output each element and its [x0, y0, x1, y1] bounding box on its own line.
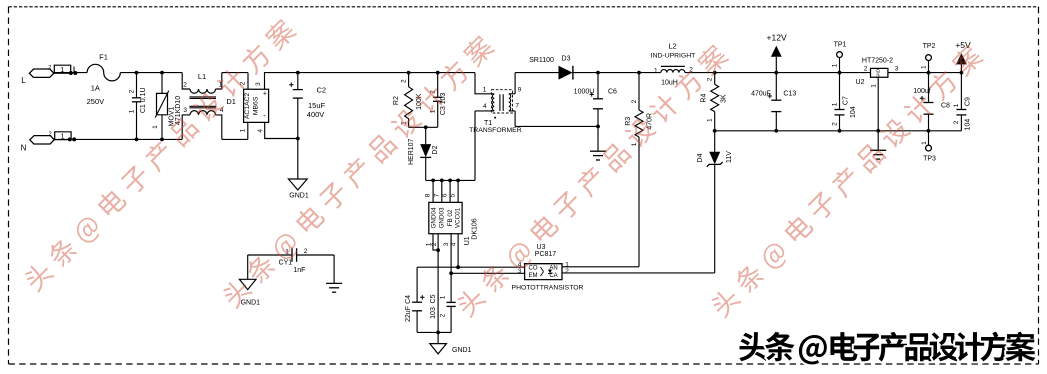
diode D2 (HER107)	[425, 127, 427, 144]
svg-text:U1: U1	[464, 236, 471, 245]
resistor R4 (3K)	[714, 73, 716, 85]
svg-text:PC817: PC817	[535, 251, 557, 258]
wire L to fuse	[54, 72, 87, 75]
svg-text:AC1AC2: AC1AC2	[244, 92, 251, 119]
watermark 4	[708, 42, 987, 321]
svg-text:C2: C2	[317, 85, 327, 94]
svg-text:2: 2	[706, 77, 713, 81]
capacitor C2 (15uF 400V)	[297, 73, 299, 179]
svg-text:2: 2	[49, 131, 52, 137]
wire U1 VCC rail	[417, 266, 524, 268]
test point TP3	[928, 131, 930, 145]
svg-text:TP3: TP3	[923, 156, 936, 163]
svg-text:2: 2	[831, 122, 838, 126]
svg-text:SR1100: SR1100	[529, 57, 554, 64]
svg-text:VCC01: VCC01	[455, 207, 462, 228]
capacitor C8 (100uf)	[928, 73, 930, 131]
ground (U2, earth)	[870, 149, 886, 151]
svg-text:1: 1	[871, 84, 878, 88]
svg-text:1000U: 1000U	[574, 89, 595, 96]
ground (C6, earth)	[597, 126, 599, 151]
svg-text:GND1: GND1	[241, 300, 261, 307]
svg-text:L1: L1	[198, 72, 206, 81]
svg-text:TP2: TP2	[923, 43, 936, 50]
svg-text:MB6S: MB6S	[253, 96, 260, 115]
svg-text:GND03: GND03	[439, 207, 446, 228]
svg-text:1: 1	[631, 142, 638, 146]
svg-text:9: 9	[518, 87, 522, 94]
ground GND1 (U1)	[437, 332, 439, 343]
fuse F1	[87, 64, 120, 81]
svg-text:L2: L2	[668, 41, 676, 50]
svg-text:GND04: GND04	[431, 207, 438, 228]
D1 pin 3 / DC+ rail	[265, 73, 476, 90]
svg-text:+5V: +5V	[955, 40, 971, 50]
svg-text:1: 1	[831, 63, 838, 67]
wire gnd bus	[417, 331, 451, 333]
wire FB to opto	[451, 272, 524, 274]
svg-text:2: 2	[565, 268, 569, 275]
svg-text:+: +	[263, 90, 267, 97]
svg-text:1: 1	[921, 141, 928, 145]
D1 pin 4	[265, 122, 298, 138]
svg-text:1A: 1A	[91, 83, 100, 92]
svg-text:2: 2	[48, 65, 51, 71]
svg-text:3: 3	[518, 268, 522, 275]
capacitor C1	[136, 73, 138, 140]
svg-text:GND: GND	[876, 69, 881, 78]
capacitor C13 (470uF)	[775, 73, 777, 131]
U1 bottom pins 1 2 3 4	[433, 234, 438, 333]
capacitor C6 (1000U)	[597, 73, 599, 127]
watermark 2	[219, 33, 498, 312]
svg-text:2: 2	[431, 242, 438, 246]
svg-text:1: 1	[953, 103, 960, 107]
wire fuse to L1	[120, 72, 182, 74]
svg-text:TP1: TP1	[834, 41, 847, 48]
svg-text:22uF: 22uF	[405, 306, 412, 322]
ground GND1 (CY1)	[247, 255, 249, 279]
connector L	[29, 69, 53, 77]
capacitor CY1 (1nF)	[248, 254, 292, 256]
svg-text:4: 4	[257, 129, 264, 133]
svg-text:IND-UPRIGHT: IND-UPRIGHT	[651, 53, 696, 60]
svg-text:C7: C7	[843, 96, 850, 105]
svg-text:T1: T1	[484, 120, 492, 127]
svg-text:CY1: CY1	[279, 260, 293, 267]
svg-text:10uH: 10uH	[661, 80, 678, 87]
svg-text:CA: CA	[549, 273, 557, 279]
svg-text:8: 8	[425, 193, 432, 197]
svg-text:2: 2	[864, 66, 868, 73]
svg-text:DK106: DK106	[472, 218, 479, 240]
svg-text:D1: D1	[226, 97, 236, 106]
svg-text:FB 02: FB 02	[447, 209, 454, 226]
svg-text:104: 104	[850, 106, 857, 118]
U2 ground pin	[877, 77, 879, 150]
svg-text:C1 0.1U: C1 0.1U	[140, 87, 147, 113]
capacitor C5 (103)	[447, 301, 456, 303]
svg-text:3: 3	[183, 107, 187, 114]
resistor R2 (100K)	[408, 73, 410, 87]
capacitor C3 (103)	[437, 73, 439, 128]
svg-text:4: 4	[450, 242, 457, 246]
svg-text:2: 2	[128, 89, 135, 93]
zener diode D4 (11V)	[714, 131, 716, 152]
svg-text:D3: D3	[562, 56, 571, 63]
svg-text:R3: R3	[625, 117, 632, 126]
svg-text:C5: C5	[430, 294, 437, 303]
wire U2 out	[888, 72, 962, 74]
svg-text:-: -	[263, 111, 266, 120]
svg-text:1: 1	[831, 102, 838, 106]
svg-text:2: 2	[183, 82, 187, 89]
wire R2/C3 bottom link	[409, 126, 438, 128]
svg-text:TRANSFORMER: TRANSFORMER	[469, 127, 522, 134]
svg-text:C8: C8	[941, 103, 950, 110]
svg-text:1: 1	[706, 118, 713, 122]
wire 0V bus	[715, 130, 962, 132]
D1 pin 2	[247, 73, 249, 90]
svg-text:2: 2	[440, 313, 447, 317]
svg-text:250V: 250V	[87, 97, 105, 106]
capacitor C4 (22uF)	[416, 267, 418, 332]
svg-text:F1: F1	[99, 52, 108, 61]
svg-text:2: 2	[953, 120, 960, 124]
svg-text:1: 1	[128, 109, 135, 113]
svg-text:L: L	[21, 76, 26, 85]
ground GND1 (C2)	[288, 179, 307, 190]
svg-text:2: 2	[631, 99, 638, 103]
svg-text:11V: 11V	[726, 151, 733, 163]
svg-text:1: 1	[440, 295, 447, 299]
svg-text:100uf: 100uf	[913, 88, 931, 95]
svg-text:1: 1	[152, 125, 159, 129]
svg-text:D4: D4	[697, 153, 704, 162]
svg-text:3: 3	[895, 66, 899, 73]
title 头条@电子产品设计方案	[739, 332, 1035, 365]
svg-text:GND1: GND1	[289, 192, 309, 199]
svg-text:HER107: HER107	[408, 138, 415, 165]
svg-text:1: 1	[483, 86, 487, 93]
svg-text:GND1: GND1	[452, 347, 472, 354]
wire T1 pin9 to D3	[515, 72, 558, 74]
op-amp U1 (DK106 switcher)	[429, 202, 462, 233]
D1 pin 1	[247, 122, 249, 139]
svg-text:R2: R2	[393, 96, 400, 105]
wire D3 to L2	[573, 72, 661, 74]
svg-text:470uF: 470uF	[751, 90, 771, 97]
svg-text:4: 4	[483, 103, 487, 110]
connector N	[30, 136, 54, 144]
wire drain bus	[426, 179, 475, 181]
watermark 1	[21, 16, 300, 295]
svg-text:1: 1	[239, 128, 246, 132]
svg-text:N: N	[21, 144, 27, 153]
svg-text:1: 1	[654, 67, 658, 74]
watermark 3	[453, 42, 732, 321]
svg-text:C4: C4	[405, 295, 412, 304]
svg-text:D2: D2	[432, 145, 439, 154]
svg-text:6: 6	[442, 193, 449, 197]
svg-text:U2: U2	[856, 79, 865, 86]
svg-text:EM: EM	[529, 273, 538, 279]
U1 top pins 8 7 6 5	[433, 180, 458, 202]
svg-text:100K: 100K	[416, 93, 423, 110]
svg-text:400V: 400V	[307, 110, 325, 119]
svg-text:103: 103	[430, 307, 437, 319]
svg-text:1nF: 1nF	[293, 267, 305, 274]
page dashed border	[9, 6, 1039, 8]
svg-text:U3: U3	[537, 244, 546, 251]
svg-text:7: 7	[515, 103, 519, 110]
wire L2 to U2	[685, 72, 871, 74]
svg-text:5: 5	[450, 193, 457, 197]
transformer T1	[475, 73, 494, 94]
svg-text:7: 7	[433, 193, 440, 197]
svg-text:C13: C13	[783, 90, 796, 97]
svg-text:3K: 3K	[721, 94, 728, 103]
svg-text:HT7250-2: HT7250-2	[862, 58, 893, 65]
svg-text:3: 3	[255, 82, 262, 86]
svg-text:104: 104	[965, 119, 972, 131]
svg-text:R4: R4	[700, 94, 707, 103]
wire N to L1	[54, 138, 182, 140]
svg-text:3: 3	[443, 242, 450, 246]
svg-text:2: 2	[400, 79, 407, 83]
svg-text:2: 2	[304, 248, 308, 255]
ground (CY1, earth)	[333, 255, 335, 283]
svg-text:1: 1	[920, 65, 927, 69]
capacitor C9 (104)	[960, 73, 962, 131]
svg-text:15uF: 15uF	[308, 101, 326, 110]
svg-text:+12V: +12V	[767, 33, 787, 43]
varistor MOV1	[161, 73, 163, 140]
svg-text:CO: CO	[529, 266, 538, 272]
svg-text:PHOTOTTRANSISTOR: PHOTOTTRANSISTOR	[512, 285, 584, 292]
resistor R3 (470R)	[638, 73, 640, 110]
svg-text:C9: C9	[965, 97, 972, 106]
diode D3 (SR1100)	[559, 66, 573, 80]
svg-text:C6: C6	[608, 89, 617, 96]
capacitor C7 (104)	[839, 73, 841, 131]
